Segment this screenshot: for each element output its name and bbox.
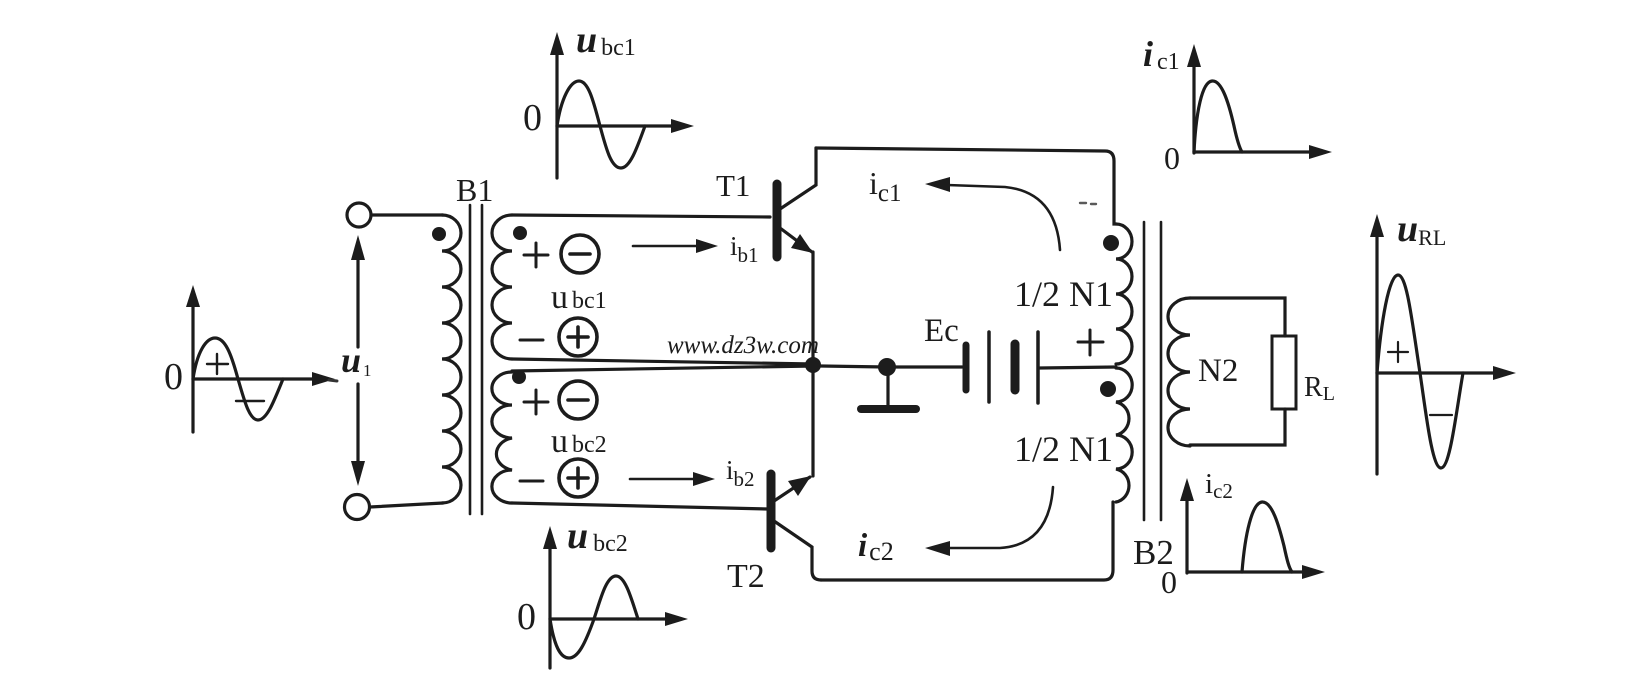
wire B1 secondary bottom to T2 base	[512, 503, 768, 509]
lower winding circled minus	[559, 381, 597, 419]
svg-text:N2: N2	[1198, 353, 1238, 389]
i_c2 curved arrow	[925, 487, 1053, 556]
svg-text:0: 0	[1161, 564, 1177, 600]
svg-text:T2: T2	[727, 558, 765, 595]
bottom rail collector T2 to B2	[821, 502, 1113, 580]
i_c1 curved arrow	[925, 177, 1060, 250]
battery plate 4 long	[1036, 332, 1040, 403]
svg-text:0: 0	[517, 596, 536, 638]
input terminal bottom	[345, 495, 370, 520]
input waveform plus sign	[207, 354, 228, 374]
transformer B2 primary winding lower	[1116, 368, 1132, 502]
upper winding plus sign	[524, 243, 548, 267]
upper winding circled plus	[559, 318, 597, 356]
i_b2 arrow	[630, 472, 715, 486]
lower winding minus sign	[520, 480, 543, 483]
battery plate 3 short	[1011, 344, 1020, 390]
ground junction dot	[878, 358, 896, 376]
stray dash artifact	[1080, 203, 1096, 204]
load resistor RL	[1272, 336, 1296, 409]
wire junction to ground node	[821, 366, 886, 367]
u_be1 waveform axes	[550, 32, 694, 178]
svg-text:1/2 N1: 1/2 N1	[1014, 429, 1113, 469]
u1 double arrow	[351, 235, 365, 486]
input waveform u1 sine curve	[193, 338, 283, 420]
transformer B2 secondary N2 winding	[1168, 298, 1190, 446]
battery plate 1 short	[963, 345, 970, 390]
wire center tap lower	[512, 366, 813, 371]
transformer B1 secondary winding lower	[492, 372, 512, 503]
i_c2 waveform pulse	[1242, 502, 1292, 572]
transistor T2 emitter	[774, 477, 810, 501]
transformer B2 core	[1144, 222, 1161, 520]
B1 secondary upper polarity dot	[513, 226, 527, 240]
emitter rail	[811, 252, 814, 476]
svg-text:Ec: Ec	[924, 313, 959, 349]
u_be2 waveform curve	[550, 576, 638, 658]
B2 center tap plus sign	[1078, 330, 1103, 355]
ground stem	[886, 372, 889, 406]
upper winding circled minus	[561, 235, 599, 273]
lower winding plus sign	[524, 390, 548, 414]
svg-text:B1: B1	[456, 172, 493, 208]
wire ground node to battery	[896, 365, 962, 368]
wire load to N2 bottom	[1190, 409, 1285, 445]
wire B1 secondary top to T1 base	[512, 215, 770, 217]
wire bottom terminal to B1 primary	[370, 503, 443, 507]
transistor T2 base bar	[767, 474, 776, 548]
svg-text:0: 0	[523, 97, 542, 139]
B1 secondary lower polarity dot	[512, 370, 526, 384]
ground bar	[861, 405, 916, 413]
transistor T1 base bar	[773, 184, 782, 257]
lower winding circled plus	[559, 459, 597, 497]
transformer B1 core	[470, 205, 482, 514]
B2 lower polarity dot	[1100, 381, 1116, 397]
left edge dash artifact	[329, 380, 337, 381]
transistor T2 emitter arrowhead	[788, 476, 811, 496]
i_c1 waveform pulse	[1194, 81, 1242, 152]
input waveform u1 axes	[186, 285, 335, 432]
u_RL waveform curve	[1377, 275, 1463, 468]
center tap junction dot	[805, 357, 821, 373]
u_be2 waveform axes	[543, 526, 688, 668]
transformer B1 secondary winding upper	[492, 215, 512, 359]
svg-text:T1: T1	[716, 168, 750, 203]
svg-text:1/2 N1: 1/2 N1	[1014, 274, 1113, 314]
upper winding minus sign	[520, 339, 543, 342]
B2 upper polarity dot	[1103, 235, 1119, 251]
transistor T1 emitter arrowhead	[791, 234, 813, 253]
transformer B1 primary winding	[442, 215, 461, 503]
transformer B1 primary polarity dot	[432, 227, 446, 241]
battery plate 2 long	[987, 332, 991, 402]
svg-text:www.dz3w.com: www.dz3w.com	[667, 332, 819, 359]
u_RL plus sign	[1388, 342, 1408, 362]
transformer B2 primary winding upper	[1116, 224, 1132, 364]
input terminal top	[347, 203, 371, 227]
u_be1 waveform curve	[557, 81, 645, 168]
wire top terminal to B1 primary	[371, 213, 443, 216]
input waveform minus sign	[236, 400, 264, 402]
i_b1 arrow	[633, 239, 718, 253]
u_RL waveform axes	[1370, 214, 1516, 474]
svg-text:0: 0	[164, 356, 183, 398]
i_c2 waveform axes	[1180, 478, 1325, 579]
transistor T1 emitter	[780, 228, 812, 252]
i_c1 waveform axes	[1187, 44, 1332, 159]
svg-text:0: 0	[1164, 140, 1180, 176]
transistor T2 collector	[774, 521, 821, 580]
wire battery to B2 center tap	[1040, 367, 1116, 368]
wire center tap upper	[512, 359, 813, 364]
top rail collector T1 to B2	[816, 148, 1116, 224]
wire N2 top to load	[1190, 298, 1285, 336]
u_RL minus sign	[1430, 414, 1452, 416]
transistor T1 collector	[780, 148, 816, 209]
